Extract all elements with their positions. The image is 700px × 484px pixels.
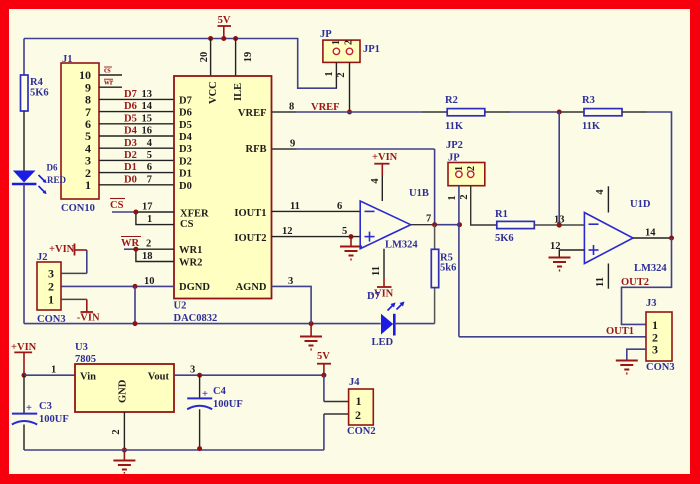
wire DGND pin 10 xyxy=(61,276,174,287)
resistor R1 xyxy=(495,209,534,244)
svg-text:LM324: LM324 xyxy=(634,263,667,274)
svg-text:12: 12 xyxy=(282,226,293,237)
svg-text:100UF: 100UF xyxy=(213,399,243,410)
U2 pin 20 (VCC) xyxy=(199,39,211,77)
svg-text:+VIN: +VIN xyxy=(11,342,37,353)
svg-text:14: 14 xyxy=(645,228,656,239)
svg-text:+: + xyxy=(26,403,32,414)
svg-text:8: 8 xyxy=(289,102,294,113)
connector J1 xyxy=(61,54,99,214)
resistor R2 xyxy=(445,95,485,132)
svg-text:5K6: 5K6 xyxy=(495,233,514,244)
svg-text:D1: D1 xyxy=(179,169,192,180)
svg-text:WR2: WR2 xyxy=(179,258,202,269)
svg-text:OUT2: OUT2 xyxy=(621,277,649,288)
svg-text:D7: D7 xyxy=(124,89,137,100)
svg-text:C4: C4 xyxy=(213,386,227,397)
svg-text:1: 1 xyxy=(51,365,56,376)
op-amp U1D xyxy=(584,199,667,274)
svg-text:20: 20 xyxy=(199,52,210,63)
U1D pin 4 xyxy=(595,186,608,212)
wire VREF net xyxy=(272,102,448,114)
connector JP2 xyxy=(446,140,485,201)
svg-text:VREF: VREF xyxy=(238,108,267,119)
svg-text:DAC0832: DAC0832 xyxy=(174,313,218,324)
svg-text:U3: U3 xyxy=(75,342,88,353)
wire 5V top rail xyxy=(24,39,337,89)
junction bus/DGND xyxy=(133,321,138,326)
power port +VIN (J2) xyxy=(49,244,87,256)
junction CS xyxy=(133,210,138,215)
wire D5 net xyxy=(99,113,174,124)
svg-text:+VIN: +VIN xyxy=(49,244,75,255)
wire bottom ground bus xyxy=(24,449,324,451)
svg-text:CS: CS xyxy=(110,200,124,211)
svg-text:U1B: U1B xyxy=(409,188,429,199)
LED D7 symbol xyxy=(372,302,405,349)
wire OUT1 to J3 pin2 xyxy=(459,336,646,338)
svg-text:9: 9 xyxy=(290,139,295,150)
JP1 pin 2 wire to VREF xyxy=(349,62,351,112)
svg-text:5V: 5V xyxy=(218,15,231,26)
svg-text:5: 5 xyxy=(147,150,152,161)
svg-text:R3: R3 xyxy=(582,95,595,106)
wire 5V to J4 pin1 xyxy=(323,375,325,401)
capacitor C4 xyxy=(187,375,243,448)
op-amp U1B xyxy=(360,188,429,251)
wire WR to WR1/WR2 pins xyxy=(124,249,174,261)
svg-text:2: 2 xyxy=(146,239,151,250)
junction RFB/R5 on pin7 xyxy=(432,222,437,227)
wire JP2 pin1 down to OUT1 xyxy=(458,186,460,337)
svg-text:4: 4 xyxy=(370,178,381,184)
regulator U3 7805 xyxy=(75,342,174,412)
svg-text:13: 13 xyxy=(554,215,565,226)
svg-text:3: 3 xyxy=(288,276,293,287)
power port -VIN (J2) xyxy=(77,312,100,324)
wire U1D pin 14 output xyxy=(633,228,672,239)
svg-text:U1D: U1D xyxy=(630,199,651,210)
svg-text:5k6: 5k6 xyxy=(440,263,456,274)
net label CS xyxy=(110,199,125,212)
power port +VIN (U1B) xyxy=(372,152,398,175)
svg-text:D6: D6 xyxy=(47,163,58,173)
wire AGND pin 3 xyxy=(272,276,312,324)
svg-text:11: 11 xyxy=(595,277,606,287)
svg-text:18: 18 xyxy=(142,251,153,262)
svg-text:D7: D7 xyxy=(367,291,380,302)
wire J2 pin1 to -VIN xyxy=(61,298,87,300)
svg-text:D3: D3 xyxy=(179,144,192,155)
svg-text:7: 7 xyxy=(426,214,431,225)
wire R4 to LED D6 xyxy=(23,111,25,171)
wire D1 net xyxy=(99,162,174,173)
svg-text:LED: LED xyxy=(372,337,394,348)
wire JP2 pin2 to R1 xyxy=(471,186,497,225)
resistor R4 xyxy=(21,39,49,112)
connector JP1 xyxy=(320,29,380,78)
svg-text:1: 1 xyxy=(85,178,91,192)
svg-text:12: 12 xyxy=(550,241,561,252)
power port -VIN (U1B) xyxy=(371,277,394,300)
U1D pin 11 xyxy=(595,264,608,289)
svg-text:5V: 5V xyxy=(317,351,330,362)
svg-text:D0: D0 xyxy=(179,181,192,192)
ground at IOUT2 xyxy=(340,237,362,260)
wire D0 net xyxy=(99,174,174,185)
svg-text:11: 11 xyxy=(290,201,300,212)
net label WR xyxy=(121,237,141,250)
junction JP2 pin1 on pin7 xyxy=(457,222,462,227)
IC U2 DAC0832 xyxy=(174,76,272,299)
junction DGND xyxy=(133,284,138,289)
svg-text:Vout: Vout xyxy=(148,372,170,383)
svg-text:LM324: LM324 xyxy=(385,240,418,251)
svg-text:VREF: VREF xyxy=(311,102,340,113)
svg-text:1: 1 xyxy=(48,293,54,307)
svg-text:10: 10 xyxy=(144,276,155,287)
svg-text:CON3: CON3 xyxy=(646,362,675,373)
svg-text:11: 11 xyxy=(371,266,382,276)
svg-text:J4: J4 xyxy=(349,377,360,388)
junction C4/bus xyxy=(197,446,202,451)
wire D7 net xyxy=(99,89,174,100)
power port +VIN (bottom) xyxy=(11,342,37,375)
svg-text:CON10: CON10 xyxy=(61,203,95,214)
wire R2 to node A xyxy=(485,111,510,113)
svg-text:5K6: 5K6 xyxy=(30,88,49,99)
wire DGND to bottom bus xyxy=(134,286,136,323)
ground at J3 xyxy=(616,361,638,374)
svg-text:+: + xyxy=(202,389,208,400)
wire J3 pin3 to ground xyxy=(627,349,646,360)
wire D4 net xyxy=(99,126,174,137)
U1B pin 11 xyxy=(371,249,384,277)
svg-text:IOUT2: IOUT2 xyxy=(234,233,266,244)
ground at AGND xyxy=(300,324,322,350)
svg-text:D6: D6 xyxy=(179,108,192,119)
capacitor C3 xyxy=(12,375,69,450)
svg-text:OUT1: OUT1 xyxy=(606,326,634,337)
svg-text:D1: D1 xyxy=(124,162,137,173)
junction 5V rail xyxy=(321,373,326,378)
svg-text:R1: R1 xyxy=(495,209,508,220)
svg-text:JP2: JP2 xyxy=(446,140,463,151)
svg-text:J3: J3 xyxy=(646,298,657,309)
wire bus to J4 pin2 xyxy=(323,414,325,450)
wire node A vertical xyxy=(558,112,560,225)
wire U1B pin 7 output xyxy=(411,214,460,225)
ground at U1D pin 12 xyxy=(549,258,571,271)
svg-text:CON2: CON2 xyxy=(347,426,376,437)
svg-text:ILE: ILE xyxy=(233,83,244,101)
junction bus/AGND xyxy=(309,321,314,326)
svg-text:D2: D2 xyxy=(124,150,137,161)
junction WR xyxy=(133,247,138,252)
svg-text:2: 2 xyxy=(459,194,470,199)
LED D6 xyxy=(12,163,67,195)
junction pin14/R3 xyxy=(669,236,674,241)
wire D6 net xyxy=(99,101,174,112)
svg-text:2: 2 xyxy=(111,429,122,434)
svg-text:1: 1 xyxy=(447,195,458,200)
svg-text:R2: R2 xyxy=(445,95,458,106)
wire D2 net xyxy=(99,150,174,161)
wire RFB net xyxy=(272,139,435,225)
svg-text:AGND: AGND xyxy=(236,282,267,293)
svg-text:D4: D4 xyxy=(179,132,193,143)
svg-text:VCC: VCC xyxy=(208,81,219,104)
svg-text:-VIN: -VIN xyxy=(77,313,100,324)
wire IOUT2 net xyxy=(272,226,361,237)
svg-text:3: 3 xyxy=(48,267,54,281)
svg-text:D4: D4 xyxy=(124,126,138,137)
wire CS to XFER/CS pins xyxy=(112,212,174,225)
junction node A top xyxy=(557,110,562,115)
svg-text:1: 1 xyxy=(356,394,362,408)
svg-text:16: 16 xyxy=(142,126,153,137)
wire R1 to U1D pin 13 xyxy=(534,224,584,226)
svg-text:2: 2 xyxy=(344,40,355,45)
svg-text:3: 3 xyxy=(652,343,658,357)
ground at U3 xyxy=(113,450,135,473)
svg-text:C3: C3 xyxy=(39,401,52,412)
svg-text:DGND: DGND xyxy=(179,282,210,293)
node A junction at pin13 xyxy=(557,222,562,227)
svg-text:IOUT1: IOUT1 xyxy=(234,208,266,219)
wire R3 to output vertical xyxy=(622,111,647,113)
svg-text:RED: RED xyxy=(47,175,67,185)
U1D pin 12 wire to ground xyxy=(550,241,584,258)
svg-text:Vin: Vin xyxy=(80,372,96,383)
junction Vout/C4 xyxy=(197,373,202,378)
svg-text:6: 6 xyxy=(337,201,342,212)
junction dots on 5V rail xyxy=(208,36,213,41)
svg-text:JP: JP xyxy=(320,29,332,40)
svg-text:2: 2 xyxy=(336,72,347,77)
junction IOUT2 ground tap xyxy=(349,234,354,239)
svg-text:7: 7 xyxy=(147,174,152,185)
svg-text:13: 13 xyxy=(142,89,153,100)
resistor R3 xyxy=(582,95,622,132)
svg-text:D7: D7 xyxy=(179,95,192,106)
svg-text:2: 2 xyxy=(48,280,54,294)
wire IOUT1 net xyxy=(272,201,361,212)
connector J4 xyxy=(347,377,376,437)
power port 5V (top) xyxy=(218,15,232,39)
svg-text:D0: D0 xyxy=(124,174,137,185)
wire Vin rail xyxy=(24,365,75,376)
svg-text:WR1: WR1 xyxy=(179,245,202,256)
svg-text:D5: D5 xyxy=(124,113,137,124)
U3 pin 2 xyxy=(111,412,124,450)
svg-text:D5: D5 xyxy=(179,120,192,131)
connector J2 xyxy=(37,252,66,325)
wire J2 pin3 to +VIN xyxy=(61,272,87,274)
power port 5V (bottom) xyxy=(317,351,331,375)
svg-text:4: 4 xyxy=(595,189,606,195)
svg-text:1: 1 xyxy=(147,214,152,225)
wire J1 pin10 cs stub xyxy=(99,66,122,76)
wire bottom analog bus xyxy=(24,323,381,325)
svg-text:3: 3 xyxy=(190,365,195,376)
svg-text:R4: R4 xyxy=(30,77,44,88)
svg-text:U2: U2 xyxy=(174,301,187,312)
wire OUT2 to J3 pin1 xyxy=(622,238,672,324)
svg-text:11K: 11K xyxy=(445,121,464,132)
svg-text:19: 19 xyxy=(243,52,254,63)
JP1 pin 1 wire xyxy=(335,62,337,88)
resistor R5 xyxy=(431,225,456,324)
svg-text:CS: CS xyxy=(180,219,194,230)
svg-text:2: 2 xyxy=(466,166,477,171)
svg-text:5: 5 xyxy=(342,226,347,237)
U1B pin 4 xyxy=(370,175,382,201)
svg-text:D3: D3 xyxy=(124,138,137,149)
junction U3 pin2/bus xyxy=(122,448,127,453)
wire J1 pin9 wr stub xyxy=(99,78,122,88)
U2 pin 19 (ILE) xyxy=(236,39,254,77)
svg-text:1: 1 xyxy=(324,71,335,76)
svg-text:17: 17 xyxy=(142,202,153,213)
svg-text:2: 2 xyxy=(355,408,361,422)
wire D3 net xyxy=(99,138,174,149)
svg-text:1: 1 xyxy=(331,40,342,45)
svg-text:XFER: XFER xyxy=(180,209,209,220)
svg-text:11K: 11K xyxy=(582,121,601,132)
svg-text:JP1: JP1 xyxy=(363,44,380,55)
wire D6 to bottom bus xyxy=(23,184,25,324)
svg-text:100UF: 100UF xyxy=(39,414,69,425)
svg-text:D2: D2 xyxy=(179,156,192,167)
wire LED D7 to R5 xyxy=(394,323,434,325)
wire Vout rail xyxy=(174,365,324,376)
svg-text:14: 14 xyxy=(142,101,153,112)
svg-text:+VIN: +VIN xyxy=(372,152,398,163)
junction on VREF xyxy=(347,110,352,115)
svg-text:15: 15 xyxy=(142,113,153,124)
svg-text:RFB: RFB xyxy=(246,144,267,155)
svg-text:6: 6 xyxy=(147,162,152,173)
svg-text:1: 1 xyxy=(454,166,465,171)
svg-text:D6: D6 xyxy=(124,101,137,112)
connector J3 xyxy=(646,298,675,373)
junction +VIN/C3 xyxy=(22,373,27,378)
svg-text:4: 4 xyxy=(147,138,153,149)
svg-text:GND: GND xyxy=(118,379,129,403)
